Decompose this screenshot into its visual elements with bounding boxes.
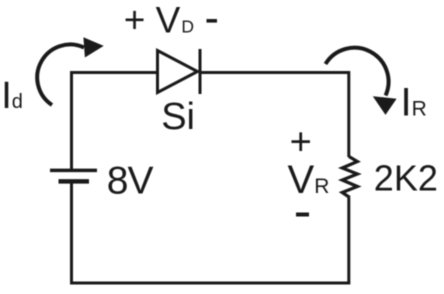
svg-text:Id: Id [1, 75, 23, 117]
label minus (diode voltage) [207, 19, 218, 23]
wire bottom segment [70, 282, 350, 285]
svg-text:VR: VR [288, 158, 330, 202]
wire left-bottom segment [70, 182, 73, 284]
diode D1 (Si) [158, 49, 201, 94]
resistor R1 (2K2) [342, 157, 357, 198]
current arrow Id (curved) [37, 37, 103, 105]
label minus (resistor bottom) [296, 213, 309, 217]
battery B1 (8V) [50, 170, 97, 181]
svg-text:IR: IR [401, 81, 427, 125]
wire top-left segment [72, 73, 158, 171]
wire top-right segment [200, 73, 349, 158]
wire right-bottom segment [347, 198, 350, 284]
svg-text:8V: 8V [107, 160, 154, 203]
svg-text:+ VD: + VD [124, 0, 194, 41]
current arrow IR (curved) [326, 48, 397, 115]
svg-text:2K2: 2K2 [374, 158, 438, 199]
svg-text:Si: Si [161, 96, 195, 138]
